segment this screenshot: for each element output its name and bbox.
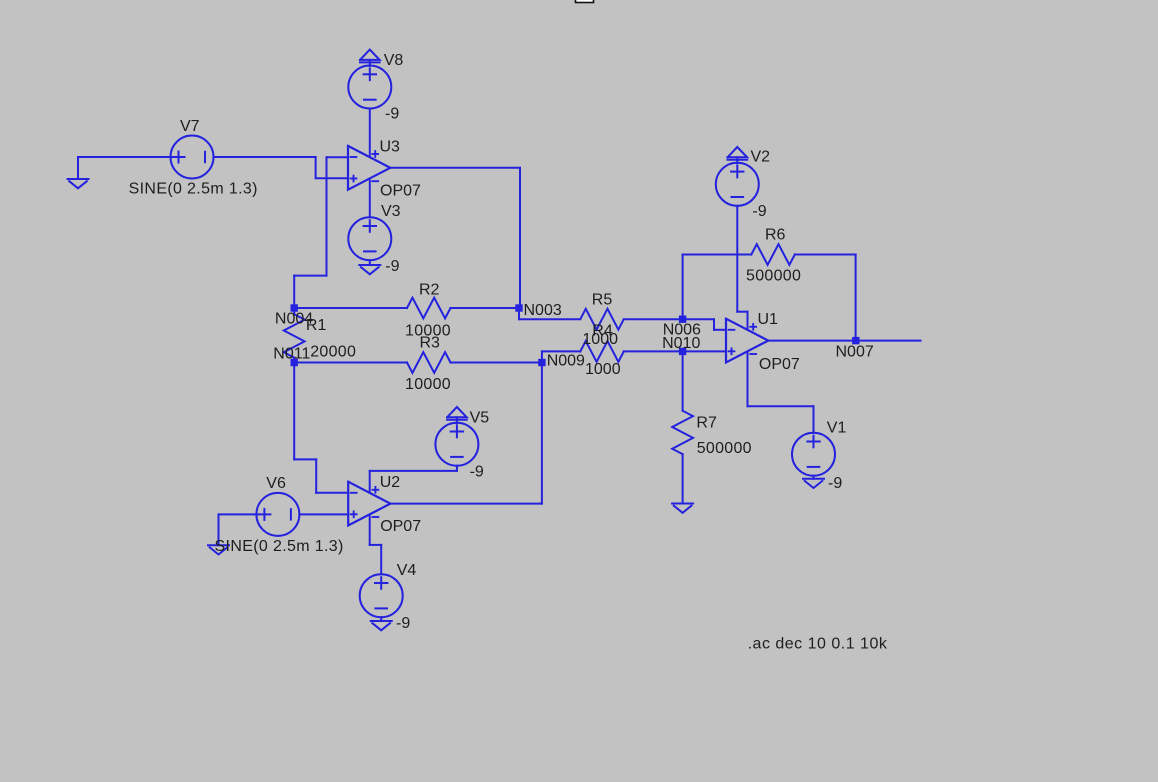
svg-text:R5: R5: [592, 291, 613, 308]
svg-text:R2: R2: [419, 282, 440, 299]
svg-text:N011: N011: [273, 346, 310, 363]
svg-text:.ac dec 10 0.1 10k: .ac dec 10 0.1 10k: [748, 636, 888, 653]
svg-text:10000: 10000: [405, 376, 451, 393]
svg-text:N003: N003: [524, 302, 562, 319]
svg-text:N009: N009: [547, 353, 585, 370]
svg-text:-9: -9: [828, 475, 842, 492]
svg-text:SINE(0 2.5m 1.3): SINE(0 2.5m 1.3): [129, 180, 258, 197]
svg-text:V8: V8: [384, 52, 404, 69]
svg-text:V5: V5: [470, 410, 490, 427]
svg-text:V2: V2: [751, 148, 771, 165]
svg-text:1000: 1000: [582, 331, 618, 348]
svg-text:V4: V4: [397, 562, 417, 579]
svg-text:R1: R1: [306, 317, 327, 334]
svg-text:OP07: OP07: [380, 518, 421, 535]
svg-text:R6: R6: [765, 227, 786, 244]
svg-text:U2: U2: [380, 474, 401, 491]
svg-text:N007: N007: [836, 343, 874, 360]
svg-text:500000: 500000: [746, 267, 801, 284]
svg-text:20000: 20000: [310, 344, 356, 361]
svg-text:-9: -9: [470, 464, 484, 481]
svg-text:-9: -9: [385, 105, 399, 122]
svg-text:V1: V1: [827, 420, 847, 437]
svg-text:V6: V6: [266, 475, 286, 492]
svg-text:U3: U3: [380, 138, 401, 155]
svg-text:-9: -9: [396, 615, 410, 632]
svg-text:SINE(0 2.5m 1.3): SINE(0 2.5m 1.3): [215, 538, 344, 555]
svg-text:1000: 1000: [585, 361, 621, 378]
svg-text:-9: -9: [385, 258, 399, 275]
svg-text:R3: R3: [420, 335, 441, 352]
svg-text:N010: N010: [662, 335, 700, 352]
svg-text:OP07: OP07: [380, 182, 421, 199]
svg-text:OP07: OP07: [759, 356, 800, 373]
svg-text:R7: R7: [696, 415, 717, 432]
svg-text:-9: -9: [752, 203, 766, 220]
svg-text:V3: V3: [381, 203, 401, 220]
svg-text:U1: U1: [758, 311, 779, 328]
svg-text:500000: 500000: [697, 440, 752, 457]
svg-text:V7: V7: [180, 118, 200, 135]
